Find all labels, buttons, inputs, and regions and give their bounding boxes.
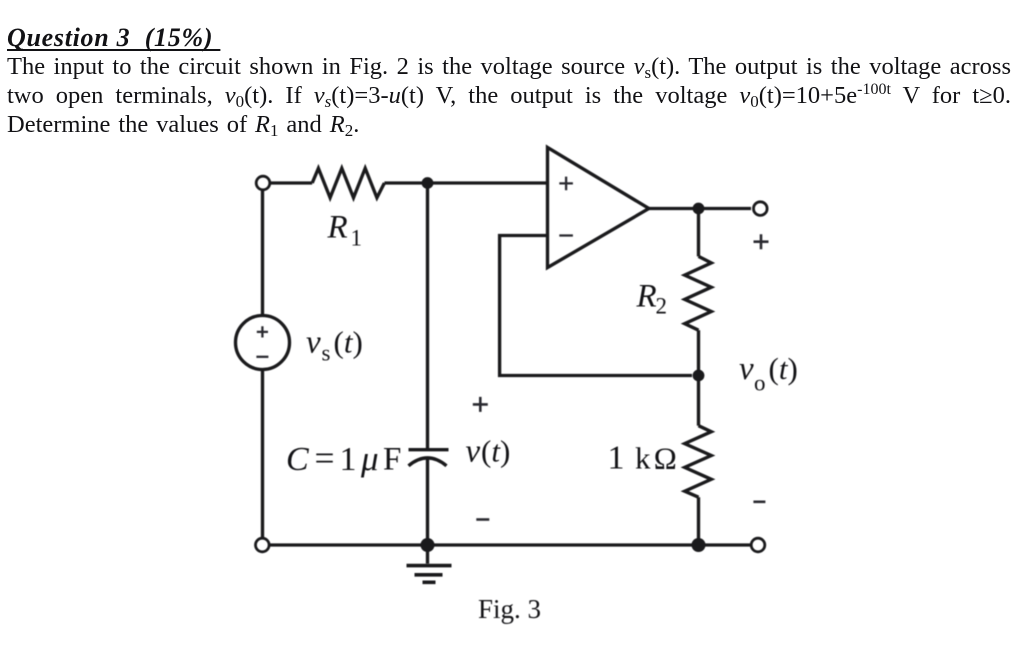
svg-text:μ: μ xyxy=(360,439,379,478)
svg-text:=: = xyxy=(315,438,335,478)
svg-text:1: 1 xyxy=(340,441,357,478)
svg-text:1: 1 xyxy=(351,225,363,250)
svg-text:(t): (t) xyxy=(769,351,798,386)
svg-text:1: 1 xyxy=(608,439,625,476)
svg-text:s: s xyxy=(322,341,331,366)
svg-text:v: v xyxy=(739,351,754,387)
svg-text:F: F xyxy=(383,441,401,477)
svg-text:2: 2 xyxy=(656,294,668,319)
svg-text:R: R xyxy=(636,278,657,314)
svg-text:R: R xyxy=(327,210,348,246)
svg-text:o: o xyxy=(754,370,766,395)
svg-text:(t): (t) xyxy=(334,324,363,359)
svg-text:v: v xyxy=(466,434,481,470)
svg-text:Fig. 3: Fig. 3 xyxy=(478,594,541,624)
svg-text:v: v xyxy=(306,324,321,360)
svg-text:k: k xyxy=(635,440,651,475)
svg-text:C: C xyxy=(286,441,309,478)
svg-text:Ω: Ω xyxy=(654,441,677,476)
svg-text:(t): (t) xyxy=(481,434,510,469)
